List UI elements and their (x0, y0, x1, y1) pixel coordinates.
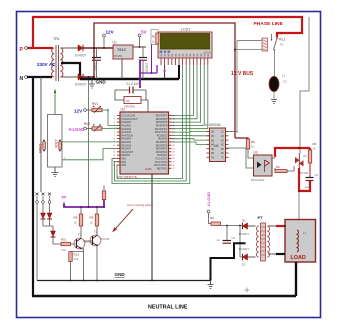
svg-text:C2: C2 (315, 173, 319, 177)
svg-text:RA0/AN0: RA0/AN0 (122, 121, 132, 124)
svg-text:16: 16 (113, 165, 115, 167)
svg-text:RD5/PSP5: RD5/PSP5 (156, 122, 168, 124)
svg-text:8: 8 (114, 138, 115, 140)
svg-text:OSC2/CLKOUT: OSC2/CLKOUT (122, 119, 139, 121)
svg-text:5V: 5V (141, 30, 148, 35)
svg-text:1000u: 1000u (93, 63, 97, 72)
svg-text:NEUTRAL LINE: NEUTRAL LINE (148, 305, 188, 311)
svg-text:U2: U2 (121, 108, 126, 112)
wire gnd rail (37, 280, 211, 282)
resistor R12 (69, 252, 80, 262)
svg-text:LOAD: LOAD (291, 255, 306, 261)
svg-text:7: 7 (114, 135, 115, 137)
ground below box (52, 167, 59, 177)
capacitor C3 (217, 225, 236, 244)
svg-text:RB0/INT: RB0/INT (122, 155, 131, 157)
svg-text:13: 13 (113, 155, 115, 157)
diode D2 1N4007 (75, 74, 87, 87)
svg-text:14: 14 (113, 158, 115, 160)
svg-text:19: 19 (173, 162, 175, 164)
wire diode join lower (43, 219, 53, 231)
wire to r11 (53, 237, 61, 244)
svg-text:2B: 2B (211, 135, 214, 138)
svg-text:12V: 12V (283, 80, 288, 84)
svg-text:MCLR/VPP: MCLR/VPP (122, 152, 134, 154)
wire mcu to uln green (169, 132, 210, 145)
svg-text:U6: U6 (214, 144, 218, 148)
svg-text:RD4/PSP4: RD4/PSP4 (156, 126, 168, 128)
svg-text:3: 3 (114, 122, 115, 124)
svg-text:R8: R8 (74, 216, 78, 220)
svg-text:7812: 7812 (117, 47, 127, 52)
svg-text:L2: L2 (282, 74, 286, 78)
wire AC sample (88, 77, 90, 207)
wire 5v purple rail (64, 200, 104, 208)
svg-text:RA1/AN1: RA1/AN1 (122, 125, 132, 128)
resistor R13 small (102, 191, 105, 200)
svg-text:6C: 6C (221, 152, 224, 155)
regulator U1 7812 (113, 41, 147, 80)
svg-text:RB3: RB3 (122, 165, 127, 167)
svg-text:RV1: RV1 (92, 102, 98, 106)
svg-text:R4: R4 (276, 165, 280, 169)
wire mcu wrap to lcd (112, 65, 190, 184)
svg-text:N: N (20, 76, 24, 82)
IC U6 ULN2003A (205, 123, 226, 162)
svg-text:R5: R5 (251, 140, 255, 144)
svg-text:5C: 5C (221, 148, 224, 151)
wire N branch (40, 77, 42, 192)
wire lcd gnd black (178, 65, 180, 79)
svg-text:10k: 10k (61, 248, 66, 252)
resistor R11 (61, 238, 76, 253)
resistor R8 (74, 214, 83, 226)
svg-text:RD1/PSP1: RD1/PSP1 (156, 149, 168, 151)
svg-text:24: 24 (173, 145, 175, 147)
svg-text:22: 22 (173, 152, 175, 154)
svg-text:29: 29 (173, 129, 175, 131)
wire buttons to mcu (62, 142, 120, 160)
lamp L1 (269, 76, 279, 91)
svg-text:MOC3021: MOC3021 (251, 178, 265, 182)
wire diode join (239, 226, 241, 258)
svg-text:RA5/AN4: RA5/AN4 (122, 138, 132, 141)
svg-text:10k: 10k (74, 257, 79, 261)
junction dots rail (70, 280, 72, 282)
svg-text:2: 2 (114, 119, 115, 121)
capacitor C 100u (139, 47, 149, 79)
svg-text:26: 26 (173, 138, 175, 140)
svg-text:4C: 4C (221, 144, 224, 147)
svg-text:GND: GND (145, 167, 153, 171)
resistor R9 (90, 214, 99, 226)
resistor R2 (151, 30, 159, 74)
relay RL1 (262, 34, 286, 51)
button FREQ (39, 140, 46, 153)
wire load bottom black (276, 253, 285, 255)
svg-text:33: 33 (173, 115, 175, 117)
svg-text:28: 28 (173, 132, 175, 134)
svg-text:RD0/PSP0: RD0/PSP0 (156, 152, 168, 154)
LCD pins (161, 54, 209, 65)
svg-text:23: 23 (173, 148, 175, 150)
wire pt secondary (248, 226, 256, 257)
wire phase line red (27, 17, 302, 48)
wire rv2 out (102, 127, 120, 129)
svg-text:1N4007: 1N4007 (75, 54, 87, 58)
svg-text:PT: PT (258, 215, 264, 220)
svg-text:1N4007: 1N4007 (75, 83, 87, 87)
crystal X1 (115, 90, 148, 112)
svg-text:BT136: BT136 (300, 171, 309, 175)
wire MCU gnd drop (151, 174, 153, 281)
svg-text:2C: 2C (221, 135, 224, 138)
svg-text:BC548: BC548 (101, 237, 110, 241)
svg-text:VI VO: VI VO (114, 54, 123, 58)
svg-text:OSC1/CLKIN: OSC1/CLKIN (122, 116, 136, 118)
svg-text:RV2: RV2 (84, 122, 90, 126)
pot RV1 (74, 102, 102, 114)
button VOLT (55, 139, 62, 151)
svg-text:R9: R9 (90, 216, 94, 220)
svg-text:6: 6 (114, 132, 115, 134)
svg-text:U1: U1 (113, 41, 117, 45)
svg-text:20: 20 (173, 158, 175, 160)
svg-text:32: 32 (173, 119, 175, 121)
capacitor C1 0.1uF (115, 82, 146, 94)
svg-text:TR1: TR1 (53, 37, 60, 41)
ground symbol near bus (89, 79, 95, 88)
svg-text:RD6/PSP6: RD6/PSP6 (156, 119, 168, 121)
wire gnd path bottom right black (211, 243, 246, 280)
svg-text:L1: L1 (303, 231, 307, 235)
svg-text:RD7/PSP7: RD7/PSP7 (156, 116, 168, 118)
svg-text:100uF: 100uF (145, 63, 149, 72)
svg-text:RD2/PSP2: RD2/PSP2 (156, 145, 168, 147)
LCD1 (158, 28, 212, 59)
pot RV2 (69, 122, 103, 132)
svg-text:RE1/AN6: RE1/AN6 (122, 144, 132, 147)
svg-text:RB1: RB1 (122, 159, 127, 161)
load L1 box (285, 220, 316, 263)
svg-text:U5: U5 (303, 154, 307, 158)
svg-text:RB7/PGD: RB7/PGD (157, 168, 167, 170)
svg-text:RC1/T1OSI: RC1/T1OSI (155, 162, 167, 164)
svg-text:C3: C3 (232, 236, 236, 240)
svg-text:7C: 7C (221, 157, 224, 160)
svg-text:1B: 1B (211, 131, 214, 134)
wire collectors (81, 207, 97, 241)
svg-text:R3: R3 (210, 216, 214, 220)
diode D5 (41, 213, 46, 219)
svg-text:RC3/SCK: RC3/SCK (157, 155, 167, 157)
svg-text:RC2/CCP1: RC2/CCP1 (156, 159, 168, 161)
svg-text:12V: 12V (106, 30, 115, 35)
capacitor C2 snubber (305, 163, 319, 189)
ground lamp (271, 100, 277, 104)
svg-text:4B: 4B (211, 144, 214, 147)
svg-text:6B: 6B (211, 152, 214, 155)
svg-text:RC0/T1OSO: RC0/T1OSO (154, 165, 167, 167)
svg-text:GND: GND (96, 80, 107, 85)
wire uln out to relay (226, 131, 238, 133)
diode D7 (51, 231, 56, 237)
wire 5V purple drop (139, 60, 141, 89)
wire secondary taps (61, 48, 78, 77)
resistor R3 (210, 216, 221, 225)
svg-text:3C: 3C (221, 139, 224, 142)
transistor Q1 (74, 233, 93, 250)
svg-text:1uF: 1uF (305, 185, 310, 189)
wire relay to lamp (274, 51, 276, 77)
diode D4 1N4007 (239, 247, 250, 267)
wire k terminals down (37, 203, 50, 280)
svg-text:PHASE LINE: PHASE LINE (254, 21, 284, 27)
wire +V rail top (94, 23, 235, 138)
svg-text:RD3/PSP3: RD3/PSP3 (156, 142, 168, 144)
svg-text:FREQ: FREQ (39, 143, 43, 153)
svg-text:5V: 5V (62, 195, 67, 200)
svg-text:X1: X1 (126, 99, 130, 103)
svg-text:1C: 1C (221, 131, 224, 134)
wire rectifier output (83, 48, 113, 77)
svg-text:31: 31 (173, 122, 175, 124)
svg-text:1u: 1u (217, 238, 221, 242)
resistor R4 gate (275, 165, 294, 173)
svg-text:RE2/AN7: RE2/AN7 (122, 148, 132, 151)
svg-text:7B: 7B (211, 157, 214, 160)
svg-text:U3: U3 (254, 151, 258, 155)
resistor R5 (235, 138, 255, 158)
wire lcd data green (169, 65, 208, 129)
svg-text:RL1: RL1 (279, 38, 286, 42)
opto U3 MOC3021 (251, 151, 272, 183)
svg-text:30: 30 (173, 125, 175, 127)
svg-text:RA3/AN3: RA3/AN3 (122, 131, 132, 134)
svg-text:18: 18 (173, 165, 175, 167)
lcd vdd mark (163, 68, 166, 72)
svg-text:12: 12 (113, 152, 115, 154)
ground symbol rail (208, 281, 214, 289)
svg-text:zero crossing detect: zero crossing detect (127, 203, 153, 207)
origin cross (245, 288, 250, 293)
svg-text:RC6/TX/CK: RC6/TX/CK (155, 132, 167, 134)
wire rv1 out (102, 110, 120, 126)
svg-text:CRYSTAL: CRYSTAL (125, 106, 136, 109)
node junctions rectifier (93, 47, 95, 49)
mcu pins (113, 115, 175, 170)
wire relay coil (237, 41, 262, 134)
svg-text:C1 0.1uF: C1 0.1uF (126, 82, 139, 86)
svg-text:R11: R11 (61, 238, 67, 242)
svg-text:VOLT: VOLT (55, 139, 59, 148)
svg-text:RC7/RX/DT: RC7/RX/DT (155, 129, 168, 131)
svg-text:RC4/SDI: RC4/SDI (158, 139, 167, 141)
svg-text:21: 21 (173, 155, 175, 157)
capacitor C 1000u (92, 48, 101, 79)
transistor Q2 (90, 230, 109, 247)
svg-text:12V: 12V (74, 109, 83, 114)
svg-text:3B: 3B (211, 139, 214, 142)
svg-text:5V: 5V (280, 43, 284, 47)
input terminals K (36, 193, 51, 204)
svg-text:R12: R12 (74, 253, 80, 257)
svg-text:17: 17 (173, 168, 175, 170)
svg-text:1: 1 (114, 115, 115, 117)
wire neutral from N (27, 77, 52, 296)
wire GND bus (80, 78, 179, 80)
wire opto red loop (275, 148, 310, 191)
svg-text:RB2: RB2 (122, 162, 127, 164)
triac U5 (295, 153, 309, 175)
wire load top red (276, 225, 285, 227)
wire neutral line bottom (32, 295, 296, 298)
wire emitters to rail (71, 246, 98, 280)
node phase-to-triac (300, 17, 309, 153)
svg-text:5: 5 (114, 129, 115, 131)
diode D6 (47, 213, 52, 219)
svg-text:5B: 5B (211, 148, 214, 151)
resistor R6 (308, 142, 316, 163)
wire triac to load (298, 191, 300, 220)
svg-text:V-LOAD: V-LOAD (207, 192, 211, 207)
svg-text:1k: 1k (74, 221, 78, 225)
svg-text:RA4/T0CKI: RA4/T0CKI (122, 134, 134, 137)
svg-text:25: 25 (173, 142, 175, 144)
svg-text:R6: R6 (313, 142, 317, 146)
transformer PT (257, 215, 270, 261)
svg-text:27: 27 (173, 135, 175, 137)
svg-text:D1: D1 (242, 219, 246, 223)
svg-text:V-LOAD: V-LOAD (69, 127, 85, 132)
svg-text:R2: R2 (152, 35, 156, 39)
svg-text:RE0/AN5: RE0/AN5 (122, 141, 132, 144)
svg-text:GND: GND (115, 272, 126, 277)
svg-text:10: 10 (113, 145, 115, 147)
net arrow above box (54, 93, 56, 115)
MCU U2 PIC16F877A (118, 108, 169, 180)
svg-text:RA2/AN2: RA2/AN2 (122, 128, 132, 131)
diode D1 1N4007 (75, 45, 87, 58)
transformer TR1 (37, 37, 63, 81)
svg-text:230V AC: 230V AC (37, 62, 56, 67)
uln pins (207, 131, 229, 160)
svg-text:1k: 1k (90, 221, 94, 225)
wire uln to opto (226, 148, 254, 168)
svg-text:D2: D2 (242, 263, 246, 267)
diode D3 1N4007 (239, 219, 250, 237)
svg-text:LCD1: LCD1 (181, 28, 190, 32)
svg-text:RC5/SDO: RC5/SDO (157, 135, 167, 137)
svg-text:15: 15 (113, 162, 115, 164)
switch box (48, 115, 63, 168)
